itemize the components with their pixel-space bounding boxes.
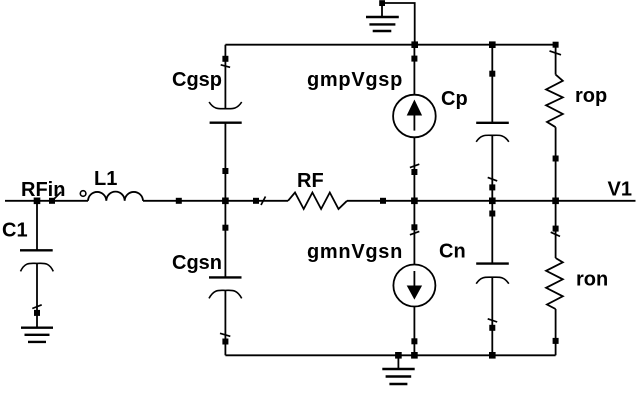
pin square at bottom of Cgsn xyxy=(222,339,228,345)
junction: signal line and Cgsp/Cgsn branch xyxy=(222,198,229,205)
tick above gmnVgsn xyxy=(410,231,419,234)
svg-text:Cgsn: Cgsn xyxy=(172,252,222,274)
current source G1 gmpVgsp xyxy=(393,95,436,138)
pin square below gmpVgsp xyxy=(411,169,417,175)
current source gmnVgsn label xyxy=(307,241,403,263)
pin square above gmnVgsn xyxy=(411,224,417,230)
pin square at top rail right corner xyxy=(553,42,559,48)
wire: top rail xyxy=(225,44,555,46)
junction: signal line and Cp/Cn branch xyxy=(489,198,496,205)
svg-text:gmpVgsp: gmpVgsp xyxy=(307,69,403,91)
wire: top ground to top rail xyxy=(382,3,415,45)
svg-text:rop: rop xyxy=(575,85,607,107)
tick on Cgsn lower wire xyxy=(220,333,230,336)
wire: signal node to ron xyxy=(555,201,557,258)
tick below Cn xyxy=(488,319,498,322)
svg-text:C1: C1 xyxy=(2,220,28,242)
wire: Cn to bottom rail xyxy=(491,277,493,355)
wire: Cgsp to signal node xyxy=(224,123,226,201)
pin square at top of Cgsn xyxy=(222,225,228,231)
svg-text:Cp: Cp xyxy=(441,88,468,110)
capacitor Cp label xyxy=(441,88,468,110)
ground under C1 xyxy=(21,328,53,342)
wire: Cgsn to bottom rail xyxy=(224,290,226,355)
inductor L1 label xyxy=(94,168,117,190)
junction: top rail and Cp branch xyxy=(489,41,496,48)
node RFin xyxy=(21,179,65,201)
wire: signal node down to Cgsn xyxy=(224,201,226,278)
resistor RF label xyxy=(297,170,324,192)
pin square right of RF xyxy=(380,198,386,204)
tick left of RF xyxy=(261,197,266,206)
tick below gmpVgsp xyxy=(410,164,419,167)
tick on C1 ground wire xyxy=(32,305,41,309)
pin square after L1 xyxy=(176,198,182,204)
pin square below Cp xyxy=(489,184,495,190)
wire: gmnVgsn to bottom rail xyxy=(413,307,415,356)
wire: top rail to gmpVgsp xyxy=(413,45,415,95)
resistor ron label xyxy=(576,269,608,291)
resistor ron xyxy=(546,258,563,309)
wire: ron to bottom rail xyxy=(555,309,557,355)
resistor rop xyxy=(546,75,563,128)
wire: Cp to signal node xyxy=(491,135,493,201)
tick below top right corner xyxy=(550,51,562,55)
tick on input wire xyxy=(54,192,61,199)
wire: C1 to ground xyxy=(36,263,38,327)
wire: top rail corner to rop xyxy=(555,45,557,75)
node V1 xyxy=(608,179,632,201)
junction: bottom rail and Cn branch xyxy=(489,352,496,359)
pin square above C1 ground xyxy=(34,310,40,316)
svg-text:RF: RF xyxy=(297,170,324,192)
pin square below Cn xyxy=(489,325,495,331)
junction: signal line and gm branch xyxy=(411,198,418,205)
tick below Cgsp top pin xyxy=(221,65,230,68)
pin square on input wire xyxy=(49,198,55,204)
inductor L1 xyxy=(88,192,143,201)
svg-text:V1: V1 xyxy=(608,179,632,201)
capacitor Cgsn xyxy=(209,277,242,298)
wire: top rail to Cp xyxy=(491,45,493,123)
wire: bottom rail xyxy=(225,354,555,356)
resistor RF xyxy=(288,193,347,210)
svg-text:gmnVgsn: gmnVgsn xyxy=(307,241,403,263)
capacitor Cp xyxy=(476,123,509,142)
wire: signal node to gmnVgsn xyxy=(413,201,415,265)
wire: RF to V1 output xyxy=(347,200,636,202)
resistor rop label xyxy=(575,85,607,107)
junction: top rail and ground wire xyxy=(411,41,418,48)
tick below Cp xyxy=(488,177,498,181)
pin square at bottom of Cgsp xyxy=(222,168,228,174)
svg-text:Cn: Cn xyxy=(439,241,466,263)
pin square above bottom rail on gm branch xyxy=(411,338,417,344)
pin square below top rail on gm branch xyxy=(411,56,417,62)
pin square left of RF xyxy=(253,198,259,204)
capacitor C1 xyxy=(20,250,53,271)
wire: RFin input to L1 xyxy=(5,200,88,202)
junction: signal line and rop/ron branch xyxy=(552,198,559,205)
wire: rop to signal node xyxy=(555,127,557,201)
capacitor Cgsp xyxy=(209,102,242,123)
capacitor Cn xyxy=(476,264,509,284)
ground at top xyxy=(366,0,399,31)
wire: top rail down to Cgsp xyxy=(224,45,226,109)
pin square at top of Cgsp xyxy=(222,56,228,62)
ground at bottom xyxy=(382,352,414,384)
svg-text:RFin: RFin xyxy=(21,179,65,201)
inductor L1 terminal circle xyxy=(80,191,86,197)
pin square above Cn xyxy=(489,211,495,217)
tick above ron xyxy=(551,232,560,236)
svg-text:L1: L1 xyxy=(94,168,117,190)
pin square above bottom rail right corner xyxy=(553,338,559,344)
svg-text:Cgsp: Cgsp xyxy=(172,69,222,91)
capacitor Cn label xyxy=(439,241,466,263)
junction: C1 tap on input wire xyxy=(34,198,41,205)
svg-text:ron: ron xyxy=(576,269,608,291)
pin square above Cp xyxy=(489,71,495,77)
wire: RFin node down to C1 xyxy=(36,201,38,251)
capacitor Cgsp label xyxy=(172,69,222,91)
wire: L1 to RF xyxy=(143,200,288,202)
wire: gmpVgsp to signal node xyxy=(413,137,415,201)
wire: signal node to Cn xyxy=(491,201,493,264)
capacitor C1 label xyxy=(2,220,28,242)
current source G2 gmnVgsn xyxy=(393,265,435,307)
pin square below rop xyxy=(553,156,559,162)
current source gmpVgsp label xyxy=(307,69,403,91)
junction: bottom rail and gm branch xyxy=(411,352,418,359)
capacitor Cgsn label xyxy=(172,252,222,274)
pin square above ron xyxy=(553,226,559,232)
